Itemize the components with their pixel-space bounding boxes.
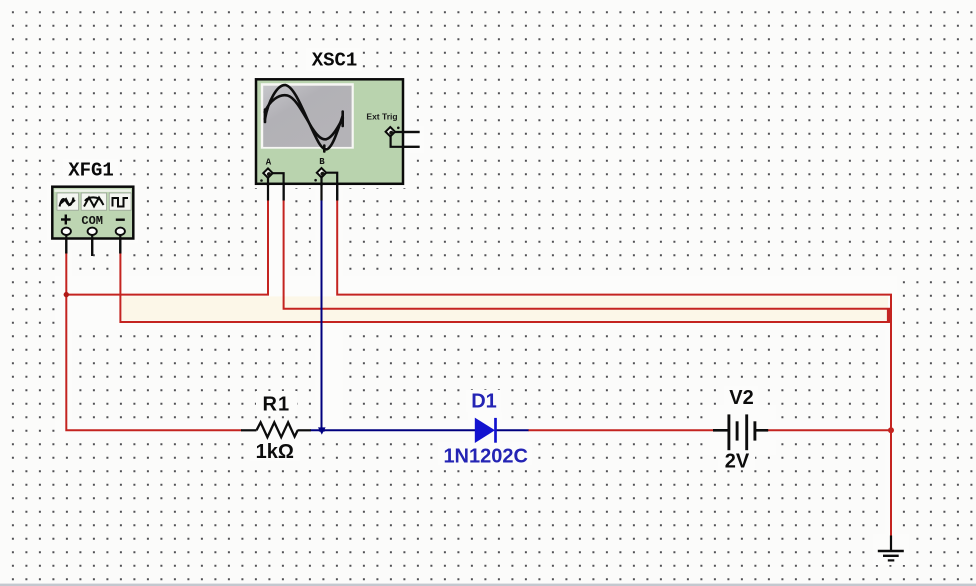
svg-text:XFG1: XFG1 bbox=[68, 160, 114, 182]
svg-text:XSC1: XSC1 bbox=[312, 50, 358, 72]
svg-text:COM: COM bbox=[81, 214, 103, 228]
svg-text:B: B bbox=[319, 157, 325, 167]
svg-text:1N1202C: 1N1202C bbox=[443, 446, 528, 468]
svg-text:V2: V2 bbox=[729, 387, 753, 409]
svg-text:D1: D1 bbox=[471, 391, 497, 413]
svg-text:R1: R1 bbox=[263, 394, 291, 416]
svg-text:Ext Trig: Ext Trig bbox=[366, 112, 397, 122]
svg-text:A: A bbox=[266, 158, 272, 168]
svg-text:1kΩ: 1kΩ bbox=[256, 441, 294, 463]
svg-text:2V: 2V bbox=[725, 451, 750, 473]
